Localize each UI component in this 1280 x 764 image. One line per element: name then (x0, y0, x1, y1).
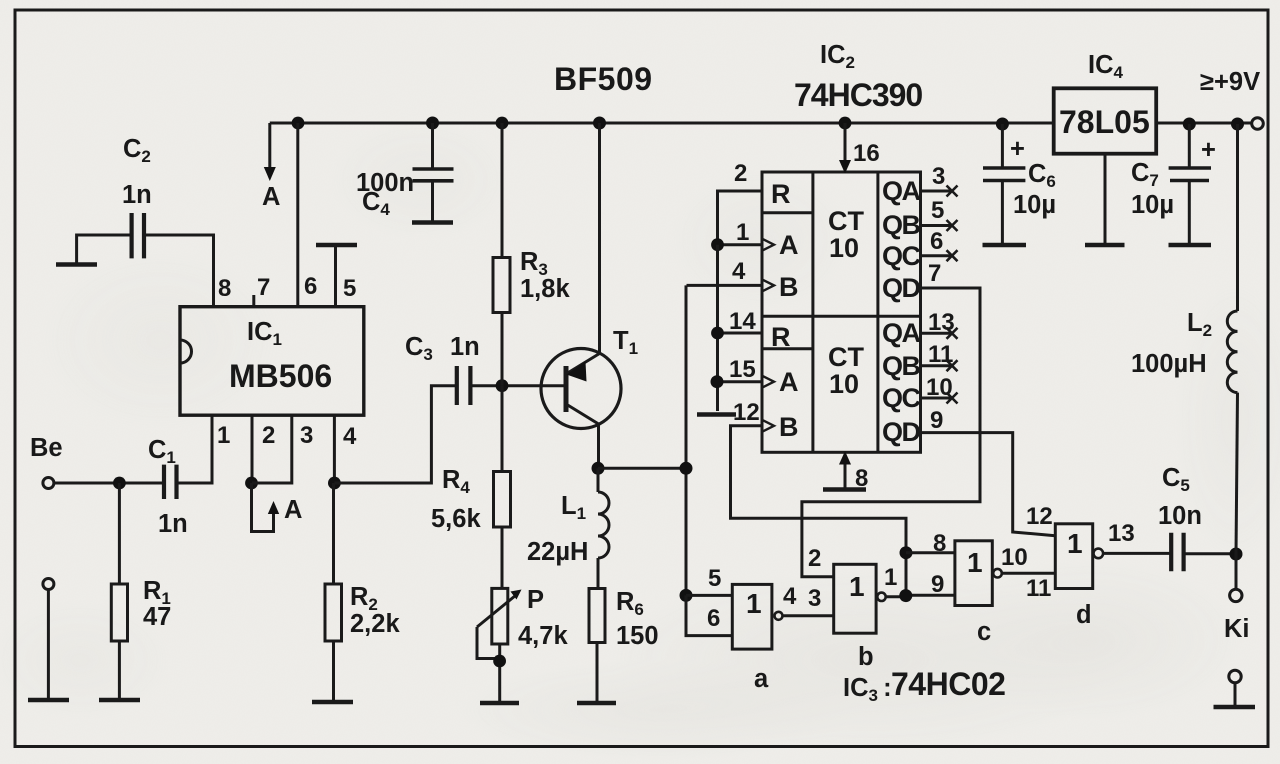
svg-text:2,2k: 2,2k (350, 610, 400, 638)
IC1 pin 7 stub (252, 295, 255, 307)
svg-text:4: 4 (783, 583, 797, 610)
svg-text:8: 8 (933, 530, 946, 557)
output QA pin 13 (n.c.) (921, 309, 958, 339)
svg-text:QD: QD (882, 273, 921, 303)
node base junction (496, 379, 509, 392)
wire output QD pin 7 to gate b input 2 (802, 260, 980, 577)
svg-text:+: + (1010, 135, 1025, 163)
svg-text:74HC390: 74HC390 (794, 77, 922, 113)
svg-text:12: 12 (733, 399, 760, 426)
svg-text:7: 7 (257, 274, 270, 301)
svg-text:Be: Be (30, 434, 63, 462)
wire C3 to base node (470, 384, 566, 387)
svg-text:1n: 1n (450, 333, 480, 361)
capacitor C5 10n (1158, 464, 1202, 571)
svg-text:150: 150 (616, 622, 659, 650)
svg-text:1: 1 (967, 547, 983, 578)
svg-text:6: 6 (707, 605, 720, 632)
node pin4 junction (328, 477, 341, 490)
svg-text:IC3 :: IC3 : (843, 674, 892, 705)
node Ki junction (1230, 548, 1243, 561)
svg-text:4: 4 (732, 258, 746, 285)
label IC3 74HC02 (843, 666, 1005, 705)
svg-text:1n: 1n (122, 181, 152, 209)
output QA pin 3 (n.c.) (921, 163, 958, 197)
wire C2 left to ground (77, 235, 132, 263)
wire gate d output 13 to C5 (1104, 520, 1172, 553)
svg-text:1,8k: 1,8k (520, 275, 570, 303)
svg-text:CT: CT (828, 342, 864, 372)
svg-text:9: 9 (931, 571, 944, 598)
svg-text:+: + (1201, 136, 1216, 164)
svg-text:b: b (858, 643, 874, 671)
wire pin 4 B input from emitter line (686, 258, 762, 595)
wire C2 right to IC1 pin 8 (144, 235, 214, 307)
svg-text:8: 8 (218, 275, 231, 302)
svg-text:QC: QC (882, 383, 921, 413)
svg-text:d: d (1076, 601, 1092, 629)
IC U4 78L05 regulator (1054, 51, 1157, 244)
node emitter/B junction (680, 462, 693, 475)
wire Be to C1 (54, 482, 164, 485)
svg-text:5,6k: 5,6k (431, 505, 481, 533)
svg-text:3: 3 (808, 585, 821, 612)
wire gate a output 4 to gate b input 3 (783, 583, 834, 616)
output QB pin 5 (n.c.) (921, 197, 958, 231)
svg-text:11: 11 (928, 341, 953, 368)
wire chain pins 2-1-14-15 to ground (716, 245, 719, 411)
IC U1 MB506 (IC1) (180, 273, 364, 450)
wire IC1 pin 2 down (251, 415, 254, 483)
svg-text:22µH: 22µH (527, 538, 588, 566)
wire pin 15 clock (711, 356, 763, 388)
svg-text:15: 15 (729, 356, 756, 383)
svg-text:1n: 1n (158, 510, 188, 538)
svg-text:10µ: 10µ (1013, 191, 1056, 219)
NOR gate d (1055, 524, 1103, 629)
svg-text:10: 10 (926, 374, 953, 401)
wire C1 to IC1 pin 1 (177, 415, 213, 483)
svg-text:QB: QB (882, 351, 921, 381)
inductor L1 22uH (527, 468, 609, 588)
ground (IC2 pin 8) (823, 487, 866, 492)
svg-text:13: 13 (928, 309, 955, 336)
svg-text:B: B (779, 272, 799, 302)
capacitor C2 1n (122, 135, 152, 258)
capacitor C1 1n (148, 436, 188, 538)
resistor R6 150 (589, 588, 659, 703)
svg-text:1: 1 (849, 571, 865, 602)
potentiometer P 4,7k (477, 586, 568, 703)
terminal +9V (1200, 68, 1263, 129)
svg-text:QA: QA (882, 318, 921, 348)
inductor L2 100uH (1131, 124, 1238, 554)
svg-text:6: 6 (304, 273, 317, 300)
terminal Be (30, 434, 63, 489)
svg-text:A: A (262, 183, 280, 211)
svg-text:1: 1 (217, 422, 230, 449)
svg-text:2: 2 (734, 160, 747, 187)
ground (C7) (1169, 243, 1212, 248)
ground (pins chain) (697, 412, 736, 417)
wire IC1 pin 3 to pin 2 (252, 415, 292, 483)
terminal lower right (1229, 670, 1241, 706)
svg-text:9: 9 (930, 407, 943, 434)
svg-text:2: 2 (808, 545, 821, 572)
ground (78L05) (1085, 243, 1125, 248)
svg-text:a: a (754, 665, 769, 693)
svg-text:100µH: 100µH (1131, 350, 1207, 378)
ground (C6) (983, 243, 1027, 248)
svg-text:10: 10 (1001, 544, 1028, 571)
capacitor C4 100n (356, 123, 454, 221)
svg-text:c: c (977, 618, 991, 646)
ground (IC1 pin 5, inverted) (316, 245, 357, 307)
wire emitter to NOR input column (598, 467, 686, 470)
svg-text:3: 3 (300, 422, 313, 449)
output QB pin 11 (n.c.) (921, 341, 958, 371)
svg-text:≥+9V: ≥+9V (1200, 68, 1260, 96)
capacitor C7 10u (1131, 124, 1216, 244)
svg-text:5: 5 (931, 197, 944, 224)
svg-text:1: 1 (884, 564, 897, 591)
node pin2/pin3 junction (245, 477, 258, 490)
output QC pin 6 (n.c.) (921, 228, 958, 261)
svg-text:4,7k: 4,7k (518, 622, 568, 650)
ground (P) (480, 701, 519, 706)
svg-text:BF509: BF509 (554, 61, 653, 97)
svg-text:74HC02: 74HC02 (891, 666, 1005, 702)
svg-text:16: 16 (853, 140, 880, 167)
svg-text:1: 1 (1067, 528, 1083, 559)
wire pin 14 reset (711, 308, 762, 339)
resistor R3 1,8k (493, 123, 570, 386)
svg-text:6: 6 (930, 228, 943, 255)
output QC pin 10 (n.c.) (921, 374, 958, 404)
ground (R1) (99, 698, 140, 703)
svg-text:12: 12 (1026, 503, 1053, 530)
svg-text:QC: QC (882, 241, 921, 271)
node Be/R1 junction (113, 477, 126, 490)
wire pin 12 B input (731, 399, 907, 553)
svg-text:10µ: 10µ (1131, 191, 1174, 219)
svg-text:A: A (779, 367, 799, 397)
svg-text:MB506: MB506 (229, 358, 332, 394)
node rail junction dots (292, 117, 1244, 131)
svg-text:2: 2 (262, 422, 275, 449)
svg-text:R: R (771, 179, 791, 209)
wire C5 to Ki node (1184, 552, 1236, 555)
svg-text:QA: QA (882, 176, 921, 206)
IC U2 74HC390 counter block (762, 172, 921, 452)
wire +9V power rail (270, 122, 1251, 125)
svg-text:A: A (284, 496, 302, 524)
svg-text:47: 47 (143, 603, 171, 631)
terminal Ki (1224, 554, 1250, 643)
svg-text:B: B (779, 412, 799, 442)
svg-text:11: 11 (1026, 575, 1051, 602)
ground (lower left terminal) (28, 698, 69, 703)
wire pin 2 reset (718, 160, 763, 245)
node emitter junction (592, 462, 605, 475)
NOR gate a (732, 584, 782, 693)
svg-text:5: 5 (343, 275, 356, 302)
svg-text:Ki: Ki (1224, 615, 1250, 643)
wire IC1 pin 4 down (333, 415, 336, 483)
svg-text:5: 5 (708, 565, 721, 592)
ground (C2) (56, 262, 97, 267)
svg-text:10: 10 (829, 369, 859, 399)
svg-text:4: 4 (343, 423, 357, 450)
svg-text:14: 14 (729, 308, 756, 335)
pin 16 power feed (839, 123, 880, 174)
ground (R2) (312, 700, 353, 705)
terminal lower left (43, 579, 54, 701)
svg-text:P: P (527, 586, 544, 614)
wire gate c input 8 (906, 530, 955, 598)
ground (C4) (412, 220, 453, 225)
wire gate c output 10 to gate d input 11 (1001, 503, 1055, 602)
node gate a input junction (680, 589, 693, 602)
wire output QD pin 9 to gate d input 12 (921, 407, 1056, 536)
svg-text:13: 13 (1108, 520, 1135, 547)
capacitor C3 1n (405, 333, 480, 405)
svg-text:10: 10 (829, 233, 859, 263)
resistor R1 47 (111, 483, 171, 700)
NOR gate b (808, 545, 886, 671)
svg-text:R: R (771, 322, 791, 352)
resistor R2 22k (325, 483, 400, 702)
svg-text:CT: CT (828, 206, 864, 236)
NOR gate c (955, 541, 1002, 646)
svg-text:78L05: 78L05 (1059, 104, 1150, 140)
svg-text:1: 1 (746, 588, 762, 619)
svg-text:QB: QB (882, 210, 921, 240)
transistor T1 (541, 123, 638, 468)
ground (R6) (577, 701, 616, 706)
svg-text:3: 3 (932, 163, 945, 190)
svg-text:QD: QD (882, 417, 921, 447)
wire pin 1 clock (711, 219, 762, 251)
ground (lower right terminal) (1214, 705, 1256, 710)
wire gate b output 1 to gate c input 9 (884, 546, 955, 602)
wire gate a inputs 5 and 6 (686, 565, 732, 636)
node A arrow (top) (262, 123, 280, 211)
svg-text:10n: 10n (1158, 502, 1202, 530)
svg-text:A: A (779, 230, 799, 260)
resistor R4 5,6k (431, 386, 511, 589)
wire IC1 pin 6 to rail (296, 123, 299, 307)
capacitor C6 10u (983, 124, 1056, 244)
wire pin4 to C3 (334, 386, 456, 483)
svg-text:7: 7 (928, 260, 941, 287)
pin 8 ground feed (839, 451, 868, 492)
label IC2 74HC390 (794, 41, 922, 113)
svg-text:1: 1 (736, 219, 749, 246)
node A arrow (pin 2 hook) (252, 483, 303, 532)
